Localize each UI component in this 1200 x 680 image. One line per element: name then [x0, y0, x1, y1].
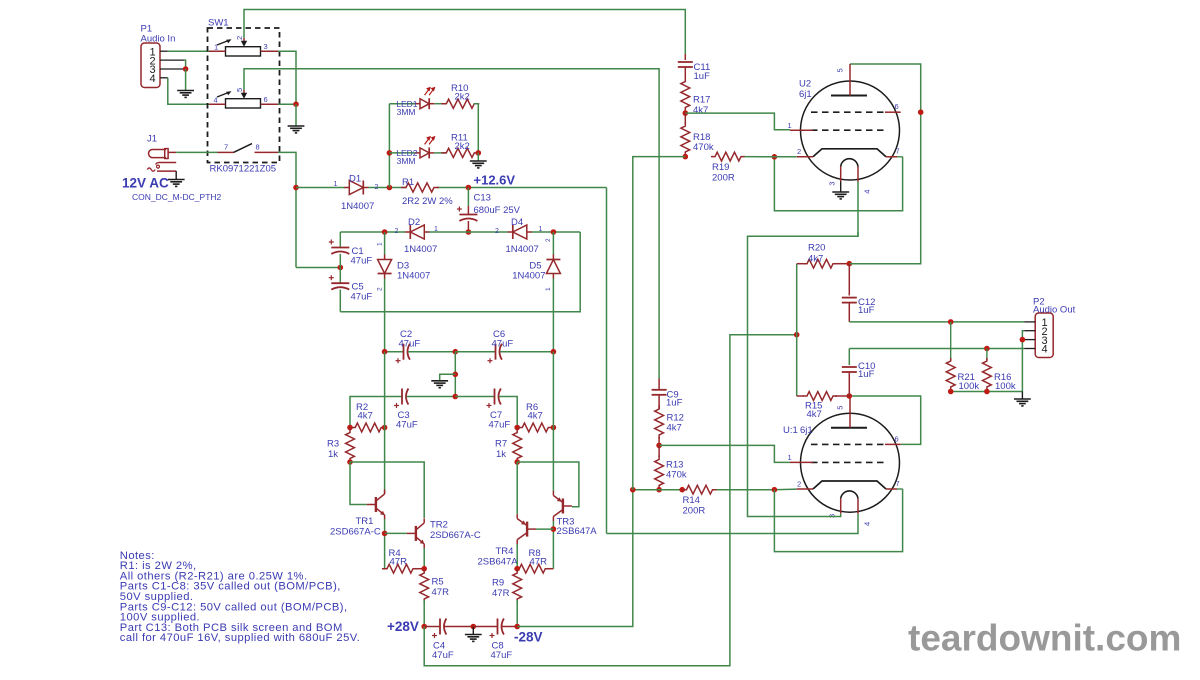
wire P1-1 to SW1 pin1: [168, 50, 209, 52]
wire R7 to TR3 base: [517, 462, 579, 507]
ground at R11: [470, 161, 487, 168]
svg-text:7: 7: [896, 479, 900, 488]
svg-text:D2: D2: [408, 217, 420, 228]
resistor R2 4k7: [351, 402, 385, 432]
wire node to ground: [185, 69, 187, 91]
node U2 pin6: [918, 109, 924, 115]
svg-text:J1: J1: [147, 134, 157, 145]
capacitor C8 47uF: [490, 619, 513, 662]
wire C3 row left: [350, 397, 402, 428]
node R8 left: [514, 566, 520, 572]
pot SW1-A pin1: [209, 43, 226, 52]
svg-text:2: 2: [797, 147, 801, 156]
svg-text:R18: R18: [693, 132, 710, 143]
wire switch pin8 to D1 node: [278, 152, 296, 267]
resistor R16 100k: [983, 349, 1016, 393]
wire C2 to mid: [408, 351, 455, 353]
label CON_DC_M-DC_PTH2: [132, 192, 222, 202]
svg-text:1: 1: [334, 181, 338, 188]
resistor R17 4k7: [681, 67, 711, 116]
wire to U2 pin1: [685, 113, 790, 130]
LED LED1 3MM: [396, 87, 435, 117]
svg-text:SW1: SW1: [208, 18, 229, 29]
svg-text:2SD667A-C: 2SD667A-C: [330, 526, 381, 537]
wire LED branch vertical: [388, 104, 390, 188]
wire R14 row: [633, 488, 797, 491]
svg-text:47R: 47R: [432, 587, 450, 598]
svg-text:1: 1: [539, 226, 543, 233]
svg-text:12V AC: 12V AC: [122, 175, 169, 190]
node C3/C7 mid: [453, 394, 459, 400]
resistor R11 2k2: [441, 132, 479, 157]
wire tee to ground: [440, 374, 456, 381]
pin stub P2-2: [1024, 330, 1035, 332]
wire R12 node to U1 grid: [659, 445, 790, 462]
wire TR3 collector to node: [552, 521, 554, 569]
svg-text:200R: 200R: [683, 506, 706, 517]
wire pot-A pin3 down to pin6 node: [278, 51, 296, 104]
potentiometer SW1-B body: [226, 99, 261, 108]
svg-text:4k7: 4k7: [358, 411, 373, 422]
wire bridge right side: [340, 232, 580, 312]
svg-text:47R: 47R: [492, 588, 510, 599]
svg-text:2: 2: [545, 238, 552, 242]
svg-text:call for 470uF 16V, supplied w: call for 470uF 16V, supplied with 680uF …: [120, 632, 360, 644]
node R16 bottom: [984, 389, 990, 395]
svg-text:100k: 100k: [995, 381, 1016, 392]
resistor R18 470k: [681, 113, 714, 156]
svg-text:6: 6: [264, 95, 268, 104]
resistor R5 47R: [420, 569, 449, 603]
svg-text:2: 2: [797, 480, 801, 489]
ground at SW1: [288, 126, 305, 133]
wire C13 to bridge row: [467, 221, 469, 232]
ground at P2: [1014, 399, 1031, 406]
node LED branch on rail: [387, 185, 393, 191]
node R14 row left: [630, 487, 636, 493]
wire pot-B wiper to C9 rail: [244, 69, 659, 379]
wire C6 branch down: [552, 352, 554, 428]
wire J1 to switch pin7: [176, 151, 217, 153]
wire C7 right: [499, 397, 517, 428]
capacitor C6 47uF: [488, 329, 514, 363]
node C1/C5 mid: [338, 265, 344, 271]
svg-text:2: 2: [376, 287, 383, 291]
pin stub P1-1: [160, 50, 168, 52]
wire U1 pin4 heater: [607, 514, 859, 534]
ground at C2/C6: [431, 381, 448, 388]
svg-text:200R: 200R: [712, 173, 735, 184]
diode D5 1N4007: [512, 238, 560, 291]
wire R18 bottom to -28V drop: [633, 157, 686, 490]
node -28V: [514, 624, 520, 630]
node R20 right: [847, 261, 853, 267]
svg-text:2SB647A: 2SB647A: [557, 526, 598, 537]
svg-text:3: 3: [264, 42, 268, 51]
svg-text:1N4007: 1N4007: [506, 244, 539, 255]
svg-text:1: 1: [214, 43, 218, 52]
wire TR1 emitter down: [384, 519, 386, 569]
svg-text:6j1: 6j1: [799, 89, 812, 100]
svg-text:5: 5: [836, 68, 845, 72]
wire J1 to ground: [175, 171, 177, 179]
svg-text:3: 3: [827, 182, 836, 186]
svg-text:470k: 470k: [693, 142, 714, 153]
node +28V: [421, 624, 427, 630]
svg-text:4k7: 4k7: [667, 423, 682, 434]
wire R12 bottom stub: [658, 437, 660, 445]
svg-text:4: 4: [862, 522, 871, 526]
svg-text:6j1: 6j1: [800, 425, 813, 436]
wire R20 to U2 pin6: [849, 64, 920, 264]
wire R5 to +28V: [423, 600, 425, 627]
svg-text:+12.6V: +12.6V: [474, 173, 516, 188]
notes text block: [120, 550, 360, 644]
node R16 top: [984, 346, 990, 352]
svg-text:2: 2: [375, 184, 379, 191]
wire P1-2 down to node: [184, 60, 186, 69]
svg-text:RK0971221Z05: RK0971221Z05: [210, 164, 277, 175]
diode D4 1N4007: [495, 217, 543, 255]
svg-text:2: 2: [395, 228, 399, 235]
svg-text:C13: C13: [474, 192, 491, 203]
capacitor C4 47uF: [432, 619, 454, 662]
pin stub P2-1: [1024, 321, 1035, 323]
wire to C1/C5 midpoint: [296, 267, 340, 269]
node R7 bottom: [514, 459, 520, 465]
svg-text:5: 5: [836, 406, 845, 410]
diode D3 1N4007: [376, 242, 430, 291]
wire R11 to ground: [477, 153, 479, 161]
capacitor C1 47uF: [329, 232, 373, 283]
resistor R19 200R: [711, 152, 745, 184]
wire LED1 row: [389, 103, 415, 105]
wire R21/R16 ground rail: [951, 391, 1023, 393]
wire TR4 base: [536, 528, 553, 530]
resistor R14 200R: [683, 485, 717, 516]
connector P1 Audio In: [141, 24, 176, 88]
svg-text:3MM: 3MM: [397, 156, 416, 166]
svg-text:1N4007: 1N4007: [341, 201, 374, 212]
C13 plates: [457, 192, 521, 221]
svg-text:5: 5: [235, 88, 244, 92]
ground at U2 pin3: [832, 192, 849, 199]
transistor TR4 2SB647A: [478, 514, 537, 568]
svg-text:1: 1: [434, 226, 438, 233]
wire mid to C6: [455, 351, 495, 353]
node R21 bottom: [948, 389, 954, 395]
wire LED2 to R11: [434, 152, 447, 154]
svg-text:1: 1: [788, 121, 792, 130]
node +28V feed: [794, 332, 800, 338]
resistor R13 470k: [655, 445, 687, 489]
svg-text:TR4: TR4: [496, 546, 514, 557]
svg-text:7: 7: [224, 143, 228, 152]
pot SW1-A wiper pin2: [217, 36, 247, 47]
wire U1 cathode loop: [774, 489, 902, 552]
resistor R15 4k7: [803, 392, 849, 420]
node R18 bottom: [683, 154, 689, 160]
resistor R20 4k7: [803, 243, 849, 269]
wire TR4 emitter up: [516, 462, 518, 514]
svg-text:1: 1: [376, 242, 383, 246]
wire mid ground stub: [472, 627, 474, 635]
label +12.6V: [474, 173, 516, 188]
svg-text:Audio In: Audio In: [141, 33, 176, 44]
resistor R12 4k7: [655, 395, 684, 439]
svg-text:47uF: 47uF: [491, 650, 513, 661]
node TR3 collector / TR4 base: [551, 526, 557, 532]
wire C8 to -28V node: [502, 626, 517, 628]
svg-text:D1: D1: [349, 173, 361, 184]
capacitor C2 47uF: [396, 329, 421, 363]
label 12V AC: [122, 175, 169, 190]
wire node to ground: [295, 104, 297, 126]
node R6 left: [514, 425, 520, 431]
wire P2 pins 2/3 to ground: [1022, 331, 1024, 392]
svg-text:2: 2: [235, 36, 244, 40]
node LED2 branch: [387, 150, 393, 156]
wire R10 to corner: [474, 104, 479, 153]
node P2 pin3: [1020, 337, 1026, 343]
node R13 bottom: [656, 487, 662, 493]
wire R3 to TR2 collector: [350, 462, 424, 518]
svg-text:47uF: 47uF: [399, 338, 421, 349]
ground at P1: [177, 91, 194, 98]
wire U2 pin3 to ground: [840, 182, 842, 193]
wire D3 vertical: [384, 232, 386, 352]
capacitor C12 1uF: [842, 264, 876, 322]
svg-text:1uF: 1uF: [666, 398, 683, 409]
svg-text:6: 6: [895, 435, 899, 444]
svg-text:1N4007: 1N4007: [512, 271, 545, 282]
transistor TR1 2SD667A-C: [330, 490, 385, 538]
svg-text:R5: R5: [432, 576, 444, 587]
svg-text:1: 1: [788, 453, 792, 462]
LED LED2 3MM: [396, 136, 435, 166]
node SW1 pin6 junction: [293, 101, 299, 107]
pot SW1-B pin4: [209, 96, 226, 105]
svg-text:1uF: 1uF: [858, 305, 875, 316]
svg-text:+28V: +28V: [387, 619, 419, 634]
capacitor C11 1uF: [678, 54, 710, 82]
svg-text:-28V: -28V: [514, 630, 543, 645]
node TR1 emitter / TR2 base: [382, 531, 388, 537]
resistor R7 1k: [495, 429, 522, 463]
svg-text:U2: U2: [799, 79, 811, 90]
node R2 right: [382, 425, 388, 431]
wire pot-B pin6 to node: [278, 103, 296, 105]
pin stub P1-3: [160, 68, 184, 70]
triode U1 6j1: [783, 396, 903, 514]
wire C6 down to TR3: [552, 428, 554, 492]
wire R15 left: [797, 264, 804, 396]
capacitor C3 47uF: [394, 389, 418, 431]
node C2/C6 mid: [453, 349, 459, 355]
node R3 bottom: [347, 459, 353, 465]
svg-text:4: 4: [1042, 344, 1048, 356]
svg-text:47uF: 47uF: [396, 420, 418, 431]
svg-text:2k2: 2k2: [455, 92, 470, 103]
svg-text:47uF: 47uF: [432, 650, 454, 661]
capacitor C9 1uF: [652, 379, 683, 409]
node P1 ground junction: [183, 66, 189, 72]
wire +28V to C4: [424, 626, 440, 628]
pin stub P2-4: [1024, 348, 1035, 350]
node D4/D5: [551, 229, 557, 235]
svg-text:1N4007: 1N4007: [397, 271, 430, 282]
node U1 pin2 junction: [772, 487, 778, 493]
pin stub P1-4: [160, 77, 168, 79]
node D1 row: [293, 185, 299, 191]
svg-text:2: 2: [495, 228, 499, 235]
pot SW1-B wiper pin5: [217, 88, 247, 99]
node R12/R13: [656, 443, 662, 449]
svg-text:U:1: U:1: [783, 425, 798, 436]
svg-text:Audio Out: Audio Out: [1033, 305, 1076, 316]
resistor R3 1k: [327, 429, 354, 463]
label RK0971221Z05: [210, 164, 277, 175]
svg-text:4k7: 4k7: [807, 409, 822, 420]
triode U2 6j1: [790, 64, 903, 182]
svg-text:47uF: 47uF: [489, 420, 511, 431]
switch SW1 contact 7-8: [218, 143, 279, 153]
transistor TR2 2SD667A-C: [407, 518, 481, 548]
resistor R6 4k7: [518, 402, 552, 432]
svg-text:680uF 25V: 680uF 25V: [474, 205, 521, 216]
potentiometer SW1-A body: [226, 47, 261, 56]
wire TR1-E to TR2 base: [385, 532, 407, 534]
resistor R21 100k: [946, 322, 979, 392]
svg-text:TR1: TR1: [356, 516, 374, 527]
svg-text:100k: 100k: [959, 381, 980, 392]
wire D5 vertical: [552, 232, 554, 352]
node U2 pin2: [772, 154, 778, 160]
svg-text:2k2: 2k2: [455, 141, 470, 152]
wire 12.6V heater drop: [606, 188, 608, 534]
node R17/R18: [683, 110, 689, 116]
svg-text:R20: R20: [808, 243, 825, 254]
resistor R1 2R2: [401, 177, 453, 207]
watermark teardownit.com: [908, 618, 1181, 659]
pot SW1-A pin3: [261, 42, 279, 51]
svg-text:R14: R14: [683, 495, 700, 506]
svg-text:1: 1: [545, 287, 552, 291]
node R15/C10/plate: [847, 393, 853, 399]
svg-text:4k7: 4k7: [808, 253, 823, 264]
wire U1 pin3 heater: [748, 232, 859, 517]
node R11 out: [476, 150, 482, 156]
wire +28V to bottom rail: [424, 335, 797, 666]
svg-text:47uF: 47uF: [492, 338, 514, 349]
svg-text:470k: 470k: [666, 470, 687, 481]
wire C10 row to P2 pin4: [849, 348, 1024, 350]
capacitor C13 680uF: [467, 188, 469, 215]
wire pot-A wiper to C11 (top rail): [244, 10, 685, 55]
wire TR2 emitter down: [423, 548, 425, 569]
svg-text:47uF: 47uF: [351, 291, 373, 302]
label -28V: [514, 630, 543, 645]
connector J1 barrel jack: [147, 134, 176, 172]
svg-text:teardownit.com: teardownit.com: [908, 618, 1181, 659]
wire U2 pin4 heater down: [857, 182, 859, 237]
svg-text:R1: R1: [402, 177, 414, 188]
node R2 left: [347, 425, 353, 431]
node C6 right: [551, 349, 557, 355]
node C2 left: [382, 349, 388, 355]
svg-text:1k: 1k: [328, 449, 338, 460]
resistor R9 47R: [492, 569, 522, 603]
svg-text:2SB647A: 2SB647A: [478, 557, 519, 568]
svg-text:2R2 2W 2%: 2R2 2W 2%: [402, 196, 453, 207]
svg-text:1N4007: 1N4007: [404, 244, 437, 255]
wire P1-4 to SW1 pin4: [168, 78, 209, 104]
svg-text:7: 7: [896, 147, 900, 156]
svg-text:CON_DC_M-DC_PTH2: CON_DC_M-DC_PTH2: [132, 192, 222, 202]
svg-text:1uF: 1uF: [858, 369, 875, 380]
node R4 right: [421, 566, 427, 572]
node ground tee: [453, 372, 459, 378]
capacitor C5 47uF: [329, 275, 373, 312]
transistor TR3 2SB647A: [553, 491, 597, 537]
capacitor C7 47uF: [487, 389, 511, 431]
ground at C4/C8: [465, 635, 482, 642]
svg-text:R9: R9: [492, 578, 504, 589]
node R14 left terminal: [679, 487, 685, 493]
svg-text:3MM: 3MM: [397, 107, 416, 117]
wire C6 right: [500, 351, 553, 353]
node R21 top: [948, 319, 954, 325]
resistor R4 47R: [382, 548, 424, 573]
wire C12 row to P2 pin1: [849, 321, 1024, 323]
ground at J1: [168, 180, 185, 187]
wire TR4 collector down: [516, 544, 518, 569]
U1 pin labels: [788, 406, 900, 526]
label +28V: [387, 619, 419, 634]
wire U2 cathode loop: [774, 157, 902, 211]
svg-text:47uF: 47uF: [351, 256, 373, 267]
wire LED2 row: [389, 152, 415, 154]
resistor R8 47R: [514, 548, 553, 573]
diode D1 1N4007: [334, 173, 379, 212]
svg-text:R3: R3: [327, 439, 339, 450]
svg-text:D4: D4: [511, 217, 523, 228]
node R6 right: [551, 425, 557, 431]
wire U1 pin6 up: [849, 396, 920, 444]
svg-text:2SD667A-C: 2SD667A-C: [430, 530, 481, 541]
wire R2-right vertical to TR1: [384, 352, 386, 494]
wire bridge top row: [340, 231, 580, 233]
svg-text:4k7: 4k7: [528, 411, 543, 422]
wire mid to C7: [455, 396, 494, 398]
node C4/C8 mid: [471, 624, 477, 630]
svg-text:1k: 1k: [496, 449, 506, 460]
svg-text:TR2: TR2: [430, 519, 448, 530]
svg-text:6: 6: [895, 102, 899, 111]
wire R9 to -28V: [516, 600, 518, 627]
svg-text:47R: 47R: [530, 556, 548, 567]
wire mid ground tee: [454, 352, 456, 397]
wire R3 to TR1 base: [350, 462, 367, 505]
wire +12.6V rail: [296, 187, 607, 189]
svg-text:4: 4: [149, 73, 155, 85]
node D2/D3: [382, 229, 388, 235]
capacitor C10 1uF: [842, 349, 876, 397]
wire C4 to mid: [444, 626, 473, 628]
connector P2 Audio Out: [1033, 296, 1076, 357]
svg-text:47R: 47R: [390, 556, 408, 567]
svg-text:R7: R7: [495, 439, 507, 450]
